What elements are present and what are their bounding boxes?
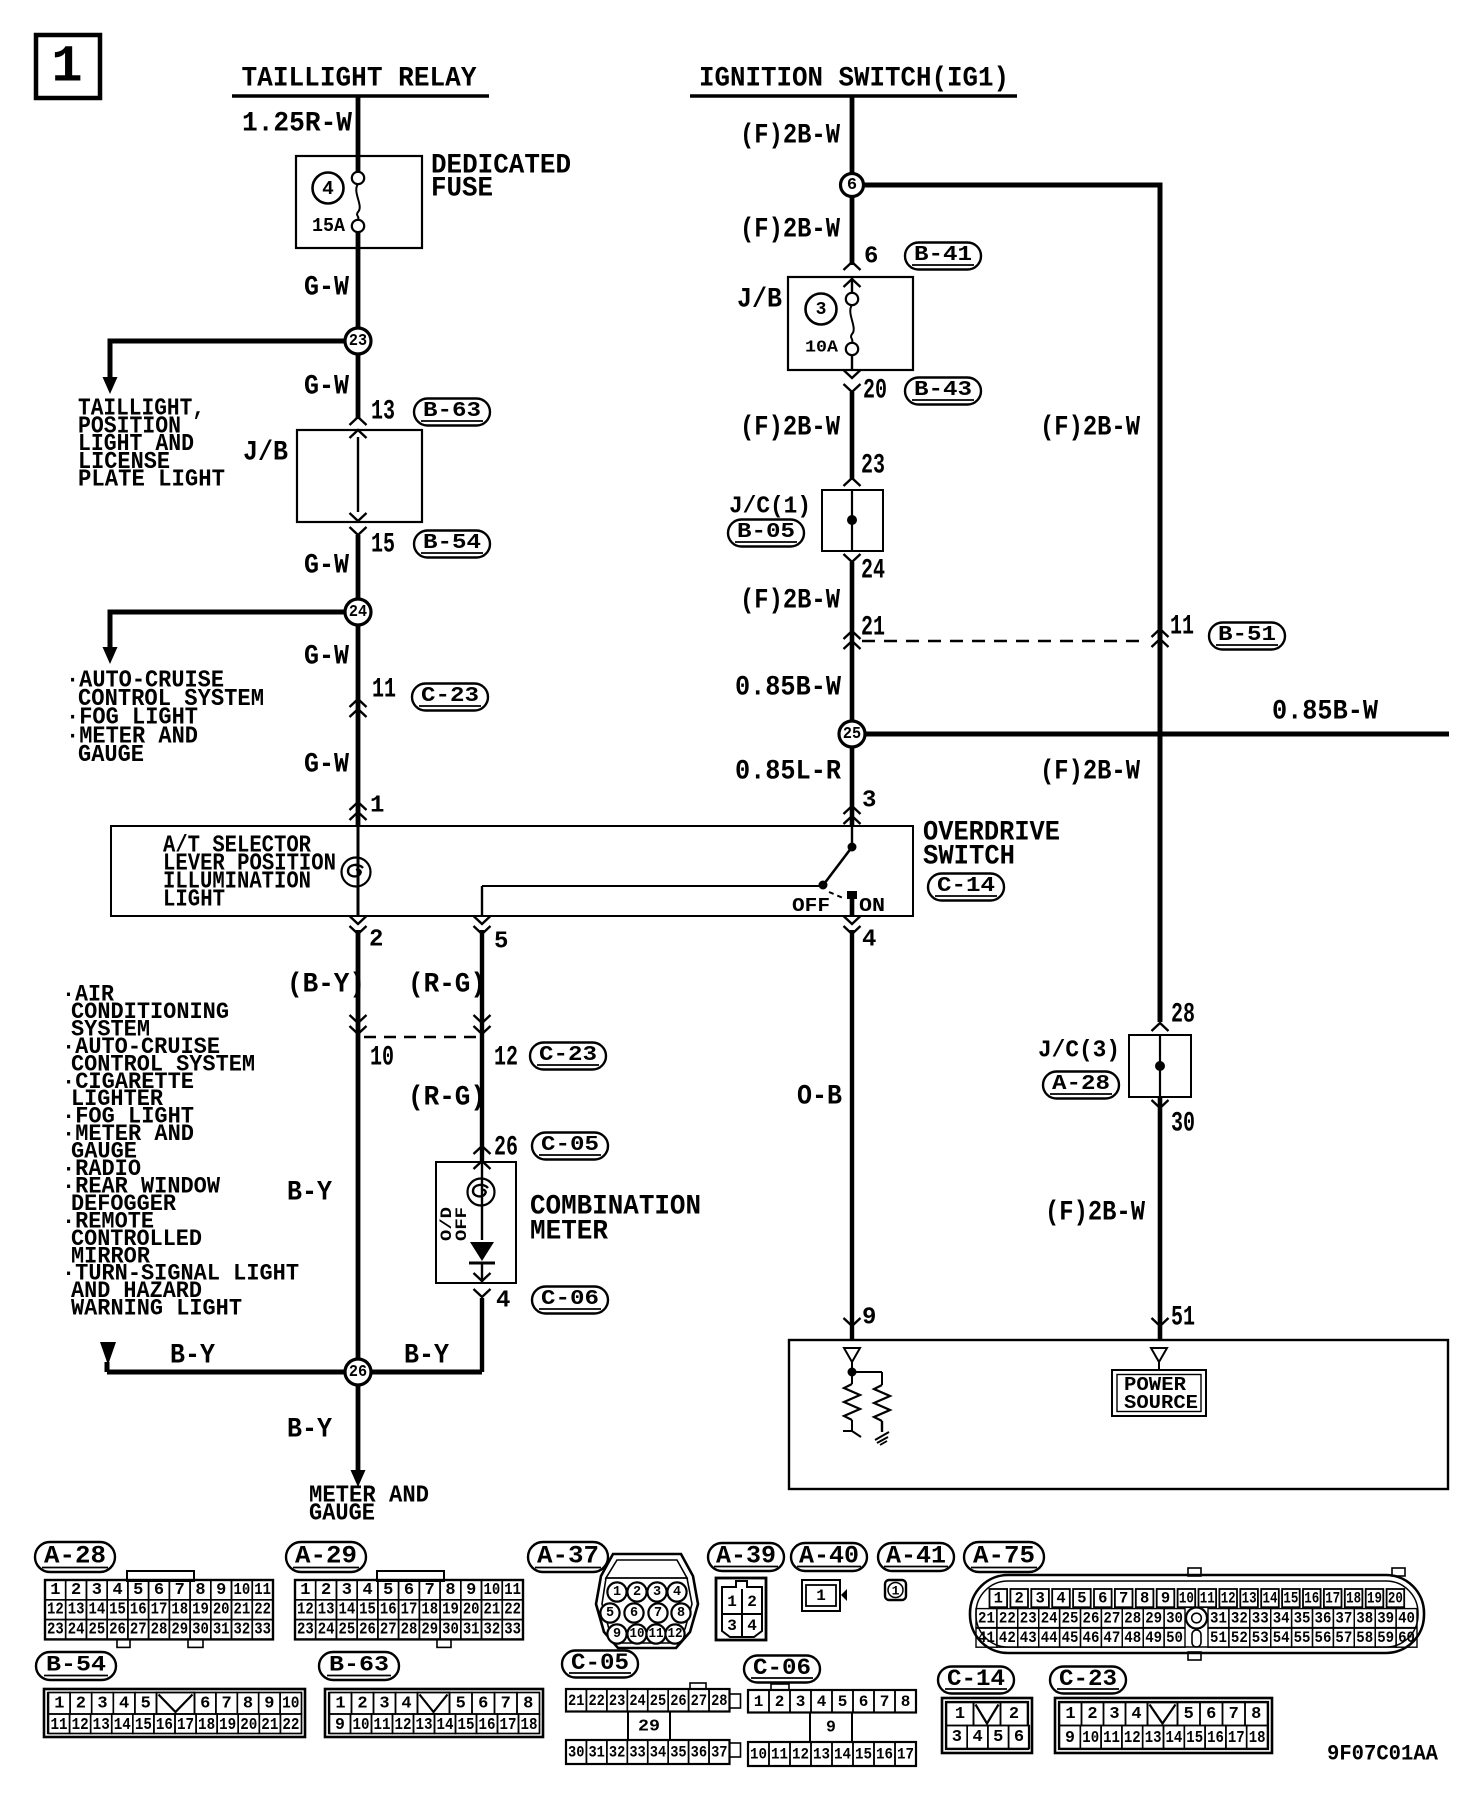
svg-text:12: 12 [1221,1590,1236,1608]
svg-text:30: 30 [1171,1109,1195,1140]
svg-text:6: 6 [404,1581,414,1600]
svg-text:3: 3 [952,1728,962,1747]
svg-text:48: 48 [1124,1629,1141,1647]
svg-text:13: 13 [93,1715,110,1734]
wire pin 3 into switch [851,826,853,845]
connector mark pin 6 [844,262,861,270]
connector label C-14 [938,1667,1014,1694]
svg-text:4: 4 [1131,1705,1141,1724]
connector mark pin 4 overdrive [844,926,861,934]
svg-text:9: 9 [1161,1590,1170,1608]
svg-text:B-Y: B-Y [404,1341,449,1372]
svg-text:51: 51 [1171,1303,1195,1334]
svg-text:56: 56 [1315,1629,1332,1647]
svg-text:1: 1 [370,793,384,820]
svg-text:0.85B-W: 0.85B-W [735,673,841,704]
label TAILLIGHT POSITION LIGHT AND LICENSE PLATE LIGHT [78,396,225,494]
svg-text:16: 16 [876,1746,893,1764]
svg-text:METER: METER [530,1217,608,1248]
connector B-41 [905,243,981,270]
wire inside J/B [357,437,359,512]
svg-text:0.85L-R: 0.85L-R [735,757,841,788]
svg-text:53: 53 [1252,1629,1269,1647]
connector label C-23 [1050,1667,1126,1694]
svg-text:11: 11 [1170,612,1194,643]
connector A-39 pinout [716,1578,766,1640]
svg-text:11: 11 [649,1627,664,1642]
svg-text:J/B: J/B [737,285,782,316]
combination meter box [436,1162,516,1283]
A/T selector lever position illumination light box [111,826,913,916]
svg-text:15: 15 [359,1601,376,1620]
svg-text:GAUGE: GAUGE [309,1501,375,1528]
svg-text:SOURCE: SOURCE [1124,1392,1198,1414]
svg-text:21: 21 [234,1601,251,1620]
svg-text:6: 6 [1014,1728,1024,1747]
diode in combination meter [469,1242,495,1263]
svg-text:15: 15 [371,530,395,561]
svg-text:11: 11 [51,1715,68,1734]
svg-text:2: 2 [71,1581,81,1600]
svg-text:34: 34 [650,1744,667,1762]
svg-text:3: 3 [653,1585,661,1600]
svg-text:23: 23 [609,1692,625,1710]
svg-text:26: 26 [670,1692,686,1710]
connector mark pin 51 [1152,1318,1169,1326]
wire node 23 to J/B [356,354,361,419]
connector A-40 pinout [802,1580,847,1611]
svg-text:22: 22 [504,1601,521,1620]
connector label B-63 [319,1652,399,1680]
svg-text:15A: 15A [312,215,346,237]
svg-text:(F)2B-W: (F)2B-W [1040,757,1140,788]
svg-text:12: 12 [297,1601,314,1620]
svg-text:10A: 10A [805,339,839,358]
connector label A-41 [878,1543,954,1571]
svg-text:ON: ON [859,895,885,917]
svg-text:3: 3 [342,1581,352,1600]
fuse F4 dedicated fuse box [296,156,422,248]
connector A-28 pinout [45,1571,273,1647]
svg-text:6: 6 [478,1694,488,1713]
wire node 25 branch right [852,732,1449,737]
wire dashed connector B-51 link [862,640,1148,642]
svg-text:(F)2B-W: (F)2B-W [1045,1198,1145,1229]
svg-text:23: 23 [861,451,885,482]
svg-text:24: 24 [318,1621,335,1640]
connector C-06 pinout [748,1684,916,1766]
svg-text:6: 6 [864,244,878,271]
wire fuse to box bottom [851,355,853,370]
node IGNITION SWITCH(IG1) title [690,64,1017,97]
svg-text:20: 20 [463,1601,480,1620]
wire into lamp [357,826,360,916]
svg-text:23: 23 [47,1621,64,1640]
svg-text:FUSE: FUSE [431,174,493,205]
connector C-14 pinout [942,1698,1032,1753]
wire through J/C(3) [1159,1035,1161,1097]
svg-text:C-14: C-14 [937,874,995,898]
connector mark pin 3 [844,806,861,814]
svg-text:5: 5 [1184,1705,1194,1724]
svg-text:13: 13 [416,1715,433,1734]
connector label A-40 [791,1543,867,1571]
connector mark pin 1 [350,802,367,810]
svg-text:12: 12 [47,1601,64,1620]
svg-text:9: 9 [1065,1728,1075,1747]
svg-text:6: 6 [200,1694,210,1713]
connector mark pin 11 B-51 [1152,629,1169,637]
connector C-23 [412,684,488,711]
ground chassis [875,1432,889,1445]
connector A-75 pinout [970,1568,1424,1660]
svg-text:14: 14 [114,1715,131,1734]
svg-text:J/C(3): J/C(3) [1038,1038,1120,1065]
svg-text:8: 8 [195,1581,205,1600]
svg-text:7: 7 [880,1693,890,1711]
wire lamp branch to OFF contact [482,885,820,887]
wire J/B to J/C(1) [850,392,855,480]
svg-text:16: 16 [1304,1590,1319,1608]
svg-text:J/C(1): J/C(1) [729,494,811,521]
lamp A/T selector illumination [342,858,371,887]
svg-text:19: 19 [1367,1590,1382,1608]
svg-text:37: 37 [1335,1610,1352,1628]
resistor R2 [874,1385,890,1432]
svg-text:26: 26 [494,1133,518,1164]
svg-text:31: 31 [1210,1610,1227,1628]
svg-text:35: 35 [670,1744,686,1762]
svg-text:29: 29 [421,1621,438,1640]
svg-text:2: 2 [747,1593,757,1611]
svg-text:32: 32 [609,1744,625,1762]
svg-text:20: 20 [863,376,887,407]
overdrive switch OFF contact [819,881,827,889]
svg-text:14: 14 [1263,1590,1278,1608]
svg-text:3: 3 [1035,1590,1044,1608]
connector B-43 [905,378,981,405]
power source label box [1112,1370,1206,1416]
svg-text:60: 60 [1398,1629,1415,1647]
wire branch from node 23 to taillight systems [103,341,359,394]
connector A-41 pinout [885,1580,906,1600]
wire J/B to node 24 [356,535,361,612]
svg-text:2: 2 [775,1693,785,1711]
svg-text:17: 17 [401,1601,418,1620]
svg-text:33: 33 [254,1621,271,1640]
svg-text:14: 14 [338,1601,355,1620]
svg-text:1: 1 [1065,1705,1075,1724]
svg-text:29: 29 [638,1717,660,1736]
connector label A-28 [35,1542,115,1572]
svg-text:9: 9 [466,1581,476,1600]
connector label A-75 [964,1542,1044,1572]
wire node 6 branch right [852,185,1160,1022]
connector mark pin 23 [844,478,861,486]
svg-text:J/B: J/B [243,438,288,469]
svg-text:12: 12 [494,1043,518,1074]
svg-text:5: 5 [494,929,508,956]
svg-text:17: 17 [1228,1728,1245,1747]
svg-text:8: 8 [523,1694,533,1713]
svg-text:14: 14 [437,1715,454,1734]
svg-text:15: 15 [855,1746,872,1764]
svg-text:B-54: B-54 [46,1653,106,1678]
svg-text:11: 11 [1103,1728,1120,1747]
svg-text:19: 19 [442,1601,459,1620]
fuse number circle 4 [313,173,344,204]
svg-text:16: 16 [130,1601,147,1620]
svg-text:12: 12 [668,1627,683,1642]
connector A-28 oval [1043,1072,1119,1099]
svg-text:29: 29 [1145,1610,1162,1628]
wire horizontal through node 26 [100,1342,482,1372]
overdrive switch ON contact [847,891,857,899]
svg-text:45: 45 [1062,1629,1079,1647]
svg-text:A-28: A-28 [44,1542,106,1571]
svg-text:24: 24 [1041,1610,1058,1628]
svg-text:25: 25 [650,1692,666,1710]
svg-text:11: 11 [372,675,396,706]
wire branch from node 24 to auto-cruise etc [103,612,359,664]
svg-text:7: 7 [501,1694,511,1713]
svg-text:B-51: B-51 [1218,623,1276,647]
svg-text:5: 5 [993,1728,1003,1747]
svg-text:22: 22 [282,1715,299,1734]
connector label A-29 [286,1542,366,1572]
svg-text:B-41: B-41 [914,243,972,267]
resistor R1 [843,1376,861,1437]
overdrive switch blade [824,847,852,884]
svg-text:21: 21 [568,1692,584,1710]
svg-text:40: 40 [1398,1610,1415,1628]
svg-text:C-06: C-06 [541,1287,599,1311]
svg-text:1: 1 [50,1581,60,1600]
svg-text:32: 32 [234,1621,251,1640]
svg-text:18: 18 [521,1715,538,1734]
svg-text:10: 10 [353,1715,370,1734]
svg-text:(R-G): (R-G) [408,970,486,1001]
svg-text:8: 8 [1251,1705,1261,1724]
svg-text:17: 17 [500,1715,517,1734]
svg-text:18: 18 [1346,1590,1361,1608]
svg-text:30: 30 [1166,1610,1183,1628]
svg-text:14: 14 [834,1746,851,1764]
svg-text:(F)2B-W: (F)2B-W [740,413,840,444]
svg-text:0.85B-W: 0.85B-W [1272,697,1378,728]
svg-text:27: 27 [1103,1610,1120,1628]
wire node 24 to pin 11 [356,625,361,826]
svg-text:33: 33 [1252,1610,1269,1628]
svg-text:16: 16 [380,1601,397,1620]
svg-text:43: 43 [1020,1629,1037,1647]
svg-text:10: 10 [484,1581,501,1600]
junction connector J/C(1) box [822,490,883,551]
terminal triangle pin 51 [1151,1348,1167,1362]
wire fuse to node 23 [356,232,361,341]
svg-text:18: 18 [171,1601,188,1620]
power source system box [789,1340,1448,1489]
svg-text:O-B: O-B [797,1082,842,1113]
connector mark pin 24 [844,554,861,562]
svg-text:OFF: OFF [792,895,830,917]
node 25 junction [839,721,865,747]
svg-text:32: 32 [1231,1610,1248,1628]
svg-text:7: 7 [1229,1705,1239,1724]
svg-text:13: 13 [371,397,395,428]
svg-text:27: 27 [130,1621,147,1640]
svg-text:8: 8 [677,1606,685,1621]
svg-text:20: 20 [240,1715,257,1734]
svg-text:(F)2B-W: (F)2B-W [740,121,840,152]
svg-text:G-W: G-W [304,372,349,403]
overdrive switch throw dash [829,892,843,898]
svg-text:3: 3 [97,1694,107,1713]
svg-text:5: 5 [133,1581,143,1600]
svg-text:18: 18 [421,1601,438,1620]
svg-text:5: 5 [1077,1590,1086,1608]
svg-text:28: 28 [1124,1610,1141,1628]
svg-text:16: 16 [479,1715,496,1734]
svg-text:10: 10 [750,1746,767,1764]
svg-text:31: 31 [588,1744,604,1762]
connector mark pin 4 meter [474,1273,491,1281]
svg-text:15: 15 [109,1601,126,1620]
connector mark pin 11 C-23 [350,699,367,707]
svg-text:B-43: B-43 [914,378,972,402]
connector mark pin 2 [350,926,367,934]
svg-text:12: 12 [1124,1728,1141,1747]
svg-text:1: 1 [892,1584,900,1599]
svg-text:B-05: B-05 [737,520,795,544]
svg-text:9: 9 [216,1581,226,1600]
svg-text:3: 3 [379,1694,389,1713]
svg-text:39: 39 [1377,1610,1394,1628]
svg-text:C-23: C-23 [421,684,479,708]
svg-text:1: 1 [754,1693,764,1711]
wire node 6 to J/B [850,196,855,265]
svg-text:21: 21 [861,613,885,644]
svg-text:1: 1 [994,1590,1003,1608]
fuse element F3 10A [846,293,858,305]
wire pin 5 down to combination meter [480,930,484,1162]
svg-text:LIGHT: LIGHT [163,887,225,914]
node 24 junction [345,599,371,625]
node dot resistor junction [848,1368,856,1376]
label O/D OFF rotated [438,1207,471,1241]
svg-text:4: 4 [496,1288,510,1315]
svg-text:14: 14 [1166,1728,1183,1747]
svg-text:(F)2B-W: (F)2B-W [740,586,840,617]
connector C-14 [928,874,1004,901]
svg-text:G-W: G-W [304,750,349,781]
wire branch to resistor R2 [852,1372,882,1385]
connector B-54 pinout [44,1689,305,1737]
svg-text:31: 31 [213,1621,230,1640]
svg-text:17: 17 [1325,1590,1340,1608]
svg-text:(R-G): (R-G) [408,1083,486,1114]
svg-text:(F)2B-W: (F)2B-W [740,215,840,246]
svg-text:9: 9 [862,1305,876,1332]
connector A-29 pinout [295,1571,523,1647]
svg-text:42: 42 [999,1629,1016,1647]
svg-text:49: 49 [1145,1629,1162,1647]
svg-text:55: 55 [1294,1629,1311,1647]
svg-text:10: 10 [1082,1728,1099,1747]
svg-text:2: 2 [1015,1590,1024,1608]
svg-text:4: 4 [362,1581,372,1600]
svg-text:12: 12 [72,1715,89,1734]
svg-text:4: 4 [119,1694,129,1713]
svg-text:1: 1 [816,1587,826,1605]
svg-text:25: 25 [1062,1610,1079,1628]
svg-text:1: 1 [51,38,82,97]
svg-text:8: 8 [1140,1590,1149,1608]
connector C-06 [532,1287,608,1314]
fuse number circle 3 [806,294,837,325]
svg-text:47: 47 [1103,1629,1120,1647]
svg-text:26: 26 [1083,1610,1100,1628]
svg-text:2: 2 [1009,1705,1019,1724]
svg-text:13: 13 [68,1601,85,1620]
svg-text:28: 28 [711,1692,727,1710]
connector mark pin 10 [350,1026,367,1034]
svg-text:3: 3 [816,300,827,320]
svg-text:28: 28 [1171,1000,1195,1031]
svg-text:9F07C01AA: 9F07C01AA [1327,1742,1439,1767]
svg-text:17: 17 [151,1601,168,1620]
wire into meter lamp [481,1162,483,1240]
svg-text:24: 24 [349,603,367,622]
svg-text:5: 5 [838,1693,848,1711]
svg-text:G-W: G-W [304,642,349,673]
svg-text:36: 36 [1315,1610,1332,1628]
connector label C-06 [744,1656,820,1683]
svg-text:B-63: B-63 [423,399,481,423]
svg-text:6: 6 [847,176,857,195]
svg-text:OFF: OFF [453,1207,471,1241]
node dot J/C(1) [848,516,857,525]
connector mark pin 9 [844,1318,861,1326]
svg-text:A-28: A-28 [1052,1072,1110,1096]
svg-text:31: 31 [463,1621,480,1640]
svg-text:33: 33 [504,1621,521,1640]
svg-text:B-Y: B-Y [287,1415,332,1446]
svg-text:46: 46 [1083,1629,1100,1647]
wire through J/C(1) [851,490,853,551]
svg-text:36: 36 [691,1744,707,1762]
connector B-63 pinout [325,1689,543,1737]
svg-text:A-29: A-29 [295,1542,357,1571]
svg-text:15: 15 [1283,1590,1298,1608]
svg-text:30: 30 [568,1744,584,1762]
connector mark pin 15 [350,513,367,521]
svg-text:28: 28 [401,1621,418,1640]
svg-text:34: 34 [1273,1610,1290,1628]
svg-text:9: 9 [264,1694,274,1713]
connector B-54 [414,531,490,558]
svg-text:6: 6 [1206,1705,1216,1724]
connector mark pin 12 [474,1026,491,1034]
junction block J/B (right) [788,277,913,370]
svg-text:19: 19 [219,1715,236,1734]
svg-text:26: 26 [359,1621,376,1640]
svg-text:11: 11 [374,1715,391,1734]
node TAILLIGHT RELAY title [232,64,489,97]
label AIR CONDITIONING SYSTEM etc list [62,982,299,1323]
svg-text:4: 4 [817,1693,827,1711]
wire diode to box bottom [481,1263,483,1283]
